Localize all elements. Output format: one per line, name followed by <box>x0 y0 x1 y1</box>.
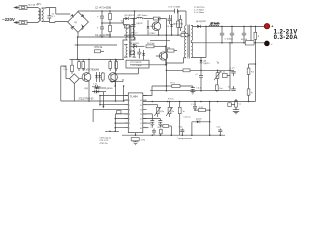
svg-text:КД213: КД213 <box>204 63 211 65</box>
T2 secondary leads <box>191 26 201 58</box>
resistor R6 <box>177 11 184 35</box>
resistor R21 <box>215 85 222 91</box>
capacitor C4 <box>167 15 172 28</box>
svg-text:КД102: КД102 <box>137 23 144 25</box>
ground C8 <box>190 92 195 95</box>
wire y86 net <box>152 85 193 87</box>
wire aux lower top <box>150 40 170 42</box>
T1 driver transformer <box>126 24 134 57</box>
svg-text:Тк: Тк <box>228 87 230 89</box>
aux bottom wire <box>130 64 166 66</box>
arrow L2 <box>13 21 17 24</box>
capacitor C15 <box>228 86 236 91</box>
junction dots caps midpoint <box>101 10 103 12</box>
capacitor C10 <box>158 121 162 127</box>
box near pin5 <box>117 111 122 114</box>
wire cap to bridge left lead <box>49 21 67 24</box>
svg-text:ЛТЮ Пж: ЛТЮ Пж <box>100 143 109 145</box>
small bridge VD6 <box>61 66 82 101</box>
svg-text:1: 1 <box>129 100 130 102</box>
svg-text:ВГ 8Ѵ7: ВГ 8Ѵ7 <box>131 33 139 35</box>
shunt R16 <box>241 39 254 45</box>
vertical sense wire right <box>254 43 256 102</box>
svg-text:СИЗ подстр: СИЗ подстр <box>100 137 112 139</box>
wire cap to bridge top lead <box>49 8 70 15</box>
terminal minus <box>265 41 270 46</box>
svg-text:TL494: TL494 <box>130 95 138 99</box>
svg-text:Д 226: Д 226 <box>196 119 202 121</box>
resistor R29 <box>195 107 210 112</box>
driver bottom rail <box>61 100 124 102</box>
pin stubs left <box>125 96 129 128</box>
svg-text:¹ продолжение: ¹ продолжение <box>177 137 193 140</box>
svg-text:3: 3 <box>129 109 130 111</box>
svg-text:2: 2 <box>129 105 130 107</box>
resistor R24 <box>235 99 241 109</box>
diode VD7 <box>95 72 98 82</box>
svg-text:11: 11 <box>140 123 142 125</box>
resistor R27 <box>254 26 260 42</box>
transistor VT4 <box>82 59 91 101</box>
choke DR3 <box>209 23 219 27</box>
svg-text:7: 7 <box>129 128 130 130</box>
optocoupler U2 <box>181 32 188 37</box>
vertical nets left of chip <box>93 96 119 132</box>
T2 label block <box>194 7 205 14</box>
pin numbers <box>129 100 142 130</box>
capacitor C3 <box>97 23 104 37</box>
capacitor C2 <box>97 11 104 23</box>
capacitor C9 <box>150 121 154 127</box>
driver top rail <box>70 58 125 60</box>
svg-text:ДР2 2мкГн: ДР2 2мкГн <box>138 15 148 17</box>
vertical rectifier join <box>201 26 206 57</box>
svg-text:С +47,0: С +47,0 <box>97 36 105 38</box>
terminal plus <box>264 24 269 29</box>
standby feed wire <box>123 18 166 20</box>
svg-text:Д7 КД105: Д7 КД105 <box>130 43 140 45</box>
zener VD13 <box>142 50 145 60</box>
wire pin11 to cap <box>143 119 161 121</box>
resistor R28 <box>178 102 184 136</box>
svg-text:V4,V5 КТ805АМ: V4,V5 КТ805АМ <box>82 69 99 72</box>
svg-text:+: + <box>271 25 273 29</box>
svg-text:Сн: Сн <box>239 104 242 106</box>
svg-text:~220V: ~220V <box>2 17 15 22</box>
resistor R13 <box>115 59 118 71</box>
transistor VT5 <box>109 59 118 101</box>
wire pin14 to pot <box>143 104 158 106</box>
svg-text:Д8 КД2997: Д8 КД2997 <box>196 21 207 23</box>
svg-text:С 1000,0: С 1000,0 <box>225 38 234 40</box>
svg-text:1,2к: 1,2к <box>221 71 225 73</box>
vertical net x209.7 <box>209 102 211 136</box>
box RK <box>228 103 235 107</box>
svg-text:2ГД 27ЛМ5-03: 2ГД 27ЛМ5-03 <box>79 98 95 100</box>
zener VD9 <box>84 87 113 91</box>
svg-text:Пр1 5А: Пр1 5А <box>28 3 35 6</box>
pin stubs right <box>143 96 147 128</box>
svg-text:Д814Б: Д814Б <box>107 88 114 90</box>
output rail plus <box>193 25 265 27</box>
capacitor C22 <box>191 102 197 111</box>
vertical bridge-bottom to driver <box>77 37 79 59</box>
bleeder wire <box>250 26 252 40</box>
wire pin12 to cap <box>143 114 153 121</box>
wire caps midpoint to T1 <box>102 19 128 25</box>
choke DR1 <box>38 8 43 22</box>
wire sense top <box>249 63 256 65</box>
label IP1 <box>94 47 104 53</box>
ground sense <box>233 109 239 114</box>
zener VD16 <box>147 20 150 35</box>
vertical net wire <box>165 19 167 91</box>
resistor R23 <box>247 80 253 102</box>
wire stub left <box>110 79 123 82</box>
resistor R4 <box>153 17 160 20</box>
wire module bottom <box>115 68 138 86</box>
svg-text:0.3-20A: 0.3-20A <box>274 35 299 41</box>
wire mid sense <box>166 69 230 71</box>
vertical x191.9 <box>191 122 193 135</box>
svg-text:С11 0,1: С11 0,1 <box>184 117 192 119</box>
capacitor C18 <box>179 127 185 136</box>
svg-text:3к: 3к <box>172 111 174 113</box>
capacitor C13 <box>225 26 235 42</box>
bottom rail <box>122 134 225 136</box>
choke DR2 <box>137 17 144 18</box>
svg-text:С 0,1: С 0,1 <box>196 87 202 89</box>
output return rail <box>193 42 265 44</box>
capacitor C5 <box>137 49 141 59</box>
diode VD17 <box>192 119 210 124</box>
svg-text:Д1 КД2105: Д1 КД2105 <box>125 15 136 17</box>
svg-text:R Т2а: R Т2а <box>168 99 174 101</box>
resistor R12 <box>109 59 112 71</box>
svg-text:12: 12 <box>140 119 142 121</box>
resistor R11 <box>82 59 85 71</box>
fuse FU1 <box>19 3 35 9</box>
resistor R10 <box>78 59 81 71</box>
driver rail mid <box>75 44 117 46</box>
resistor R5 <box>146 43 166 48</box>
ground below IC <box>133 142 139 145</box>
svg-text:2,2к: 2,2к <box>64 69 68 71</box>
feedback rail <box>150 90 230 92</box>
capacitor C12 <box>220 26 224 42</box>
resistor R1 <box>109 11 112 23</box>
wire pin16 up <box>143 86 152 96</box>
feedback arrow <box>102 92 104 107</box>
svg-text:2- 4×10вит: 2- 4×10вит <box>194 11 204 14</box>
wire L1 input <box>17 7 38 9</box>
svg-text:ДР1: ДР1 <box>37 4 42 6</box>
svg-text:13: 13 <box>140 114 142 116</box>
arrow L1 <box>13 6 17 9</box>
capacitor C20 <box>131 19 143 36</box>
wire pin10 stub <box>143 122 151 124</box>
svg-text:5: 5 <box>129 119 130 121</box>
resistor R26 <box>160 125 171 136</box>
box U4 <box>124 25 131 28</box>
T2 main transformer <box>185 25 193 59</box>
module box U5 <box>126 60 149 68</box>
potentiometer R19 <box>166 107 174 117</box>
transistor VT3 <box>150 19 161 36</box>
zener VD10 <box>94 90 106 93</box>
svg-text:С 1,0: С 1,0 <box>230 68 236 70</box>
svg-text:ИП1 Зв.: ИП1 Зв. <box>94 47 103 49</box>
resistor R9 <box>64 59 74 74</box>
resistor R7 <box>179 15 182 31</box>
resistor R25 <box>158 127 163 135</box>
wire L2 input <box>17 22 38 24</box>
wire pin9 stub <box>143 127 149 129</box>
IC ground stub <box>135 133 137 142</box>
capacitor C17 <box>151 127 157 135</box>
capacitor C1 <box>47 8 55 23</box>
capacitor Cst2 <box>92 90 100 94</box>
svg-text:14: 14 <box>140 109 142 111</box>
fuse FU2 <box>19 21 27 25</box>
wire choke to cap top <box>38 8 49 23</box>
bridge rectifier VD1-VD4 <box>68 12 89 33</box>
svg-text:СТ 2Гц5о: СТ 2Гц5о <box>133 65 143 67</box>
svg-text:ДР 2мкГн: ДР 2мкГн <box>211 23 220 25</box>
label adjust block <box>100 137 112 145</box>
standby bottom wire <box>124 34 191 36</box>
control rail mid <box>143 101 256 103</box>
resistor R17 <box>166 83 180 88</box>
bottom DC rail <box>78 32 135 40</box>
svg-text:16: 16 <box>140 100 142 102</box>
resistor R22 <box>247 64 255 80</box>
wire pin13 to pot2 <box>169 102 171 108</box>
svg-text:10: 10 <box>140 128 142 130</box>
svg-text:15: 15 <box>140 105 142 107</box>
capacitor Cst1 <box>92 83 101 88</box>
resistor R2 <box>109 23 112 37</box>
series capacitor C7 on rail <box>168 6 181 14</box>
capacitor C21 <box>242 26 246 42</box>
transistor VT2 <box>130 46 168 65</box>
resistor R8 <box>167 47 177 52</box>
capacitor C19 <box>217 127 223 136</box>
top DC rail +300V <box>78 10 186 13</box>
filter box below IC <box>131 138 146 142</box>
diode VD14 <box>196 21 207 28</box>
svg-text:1к: 1к <box>183 111 185 113</box>
svg-text:6: 6 <box>129 123 130 125</box>
svg-text:С7 4,7×300В: С7 4,7×300В <box>168 6 181 9</box>
svg-text:4: 4 <box>129 114 130 116</box>
trimmer R20 <box>214 62 221 85</box>
left loop vertical <box>60 66 62 101</box>
svg-text:8,2к: 8,2к <box>160 111 164 113</box>
box DA2 <box>221 71 230 77</box>
vertical sense wire x230 <box>229 43 231 91</box>
capacitor C14 <box>230 68 236 76</box>
TL494 IC U1 <box>128 93 143 133</box>
box U3 <box>130 51 135 55</box>
left pin wires <box>93 96 128 128</box>
potentiometer R18 <box>154 105 164 117</box>
diode VD12 <box>130 43 145 48</box>
diode VD8 <box>98 72 101 82</box>
svg-text:С 1,0: С 1,0 <box>191 104 197 106</box>
T2 primary leads <box>167 11 186 63</box>
svg-text:Ш 0,01: Ш 0,01 <box>241 39 248 41</box>
capacitor C8 <box>191 86 202 92</box>
svg-text:VТ2 КТ817Б: VТ2 КТ817Б <box>130 62 142 64</box>
svg-text:С1К 1,5Л: С1К 1,5Л <box>100 140 109 142</box>
resistor R14 <box>102 72 105 82</box>
zener VD11 <box>170 15 178 35</box>
svg-text:10к: 10к <box>219 88 222 90</box>
svg-text:С2 +47,0×350В: С2 +47,0×350В <box>95 7 112 10</box>
diode D1 <box>125 17 128 20</box>
diode VD15 <box>200 58 211 76</box>
svg-text:1- 2×30вит: 1- 2×30вит <box>194 9 204 12</box>
T1 winding leads <box>123 11 136 59</box>
vertical to pin2 <box>123 86 125 101</box>
svg-text:КТ817: КТ817 <box>150 33 157 35</box>
capacitor C11 <box>195 74 203 91</box>
